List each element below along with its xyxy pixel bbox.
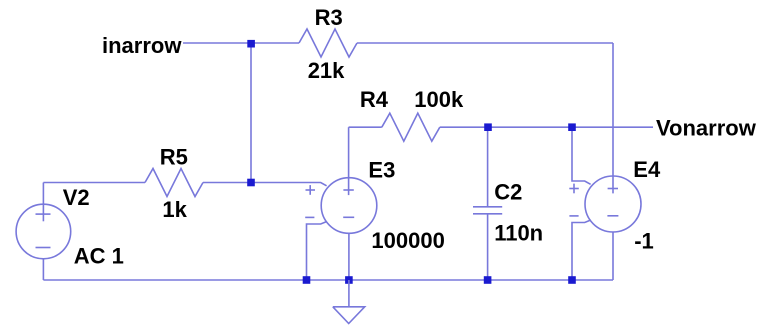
- node junction at (487.6,280): [484, 276, 492, 284]
- node junction at top (251,43): [247, 40, 255, 48]
- V2 minus sign: [36, 247, 51, 249]
- E4 upper control wire: [572, 127, 591, 184]
- svg-text:1k: 1k: [162, 197, 187, 222]
- svg-text:Vonarrow: Vonarrow: [656, 115, 757, 140]
- wire inarrow to R3: [183, 42, 299, 44]
- resistor R4: [382, 113, 440, 141]
- E4 control minus: [569, 215, 578, 217]
- svg-text:110n: 110n: [494, 221, 543, 246]
- svg-text:E4: E4: [633, 157, 661, 182]
- voltage source V2: [16, 204, 71, 259]
- node junction at (348.9,280): [345, 276, 353, 284]
- svg-text:R5: R5: [160, 144, 188, 169]
- V2 top pin: [42, 183, 44, 222]
- resistor R3: [299, 29, 357, 57]
- node junction at (572,127): [568, 123, 576, 131]
- wire vertical from top junction down: [250, 43, 252, 183]
- E4 lower control wire: [572, 220, 591, 280]
- wire corner down to E4 top pin: [612, 43, 614, 193]
- wire R3 right to corner: [357, 42, 613, 44]
- svg-text:AC 1: AC 1: [74, 244, 124, 269]
- capacitor C2: [473, 207, 502, 214]
- E4 inner plus: [608, 188, 618, 190]
- wire C2 bottom: [487, 214, 489, 280]
- E3 inner minus: [343, 216, 354, 218]
- E4 bottom pin: [612, 232, 614, 280]
- node junction at (306.5,280): [303, 276, 311, 284]
- svg-text:C2: C2: [494, 179, 522, 204]
- wire C2 top: [487, 127, 489, 207]
- wire R4 to Vonarrow: [440, 126, 653, 128]
- node junction at (572,280): [568, 276, 576, 284]
- svg-text:R4: R4: [360, 87, 389, 112]
- dependent source E3: [321, 178, 377, 234]
- svg-text:V2: V2: [63, 185, 90, 210]
- E4 control plus: [569, 184, 579, 194]
- svg-text:E3: E3: [368, 158, 395, 183]
- svg-text:21k: 21k: [308, 58, 345, 83]
- wire V2 top to R5: [43, 182, 145, 184]
- node junction at (251,182.5): [247, 179, 255, 187]
- wire R5 to E3 control plus: [203, 183, 327, 186]
- E3 top pin: [348, 127, 350, 195]
- E3 control minus: [305, 216, 314, 218]
- svg-text:100000: 100000: [371, 228, 444, 253]
- E3 bottom pin: [348, 233, 350, 280]
- wire E3 top to R4: [349, 126, 382, 128]
- svg-text:R3: R3: [315, 5, 343, 30]
- E3 control plus: [306, 185, 316, 195]
- wire to ground: [348, 280, 350, 307]
- E3 inner plus: [343, 189, 353, 191]
- svg-text:-1: -1: [634, 228, 654, 253]
- dependent source E4: [585, 176, 641, 232]
- V2 bottom pin: [42, 259, 44, 280]
- V2 plus sign: [36, 213, 51, 215]
- svg-text:inarrow: inarrow: [102, 33, 182, 58]
- E3 lower control wire: [307, 222, 327, 281]
- node junction at (488,127): [484, 123, 492, 131]
- wire bottom rail: [43, 279, 613, 281]
- svg-text:100k: 100k: [414, 87, 464, 112]
- E4 inner minus: [607, 215, 618, 217]
- resistor R5: [145, 169, 203, 197]
- ground: [333, 307, 365, 324]
